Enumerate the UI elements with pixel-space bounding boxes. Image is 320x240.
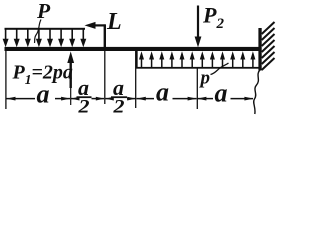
extension line at P2 <box>196 68 198 109</box>
svg-text:2: 2 <box>112 97 125 118</box>
dimension line a (third) <box>137 97 197 101</box>
svg-text:L: L <box>106 9 122 35</box>
distributed load q1 arrows <box>3 29 87 47</box>
fraction a/2 (first) <box>77 75 92 118</box>
leader from p to load <box>211 63 229 75</box>
distributed load q2 bottom line <box>136 67 259 69</box>
beam <box>5 47 260 51</box>
fraction a/2 (second) <box>111 75 127 118</box>
distributed load q1 top line <box>5 28 86 30</box>
svg-text:a: a <box>156 77 169 106</box>
force P2 (downward) <box>195 6 202 48</box>
extension line at load start <box>135 51 137 108</box>
force L (horizontal, leftward) <box>85 22 106 29</box>
extension line at bracket <box>104 47 106 104</box>
extension line left end <box>5 51 7 109</box>
dimension line a (left) <box>6 97 70 101</box>
dimension line a/2 (second) <box>105 97 136 101</box>
svg-text:a: a <box>215 78 228 107</box>
distributed load q2 arrows (upward) <box>139 51 255 67</box>
svg-text:P1=2pa: P1=2pa <box>12 62 73 88</box>
extension line at P1 <box>70 87 72 105</box>
force P1 (upward) <box>67 51 74 88</box>
svg-text:a: a <box>37 79 50 108</box>
svg-text:2: 2 <box>77 97 90 118</box>
leader from P to load <box>35 20 42 44</box>
svg-text:p: p <box>199 68 211 89</box>
distributed load q2 left edge <box>136 50 138 68</box>
fixed support wall line <box>258 28 261 71</box>
wall hatching <box>262 22 275 70</box>
bracket post for force L <box>104 24 106 47</box>
dimension line a/2 (first) <box>71 97 105 101</box>
svg-text:P: P <box>36 0 51 23</box>
wavy break line below wall <box>254 70 260 114</box>
dimension line a (fourth) <box>197 97 253 101</box>
